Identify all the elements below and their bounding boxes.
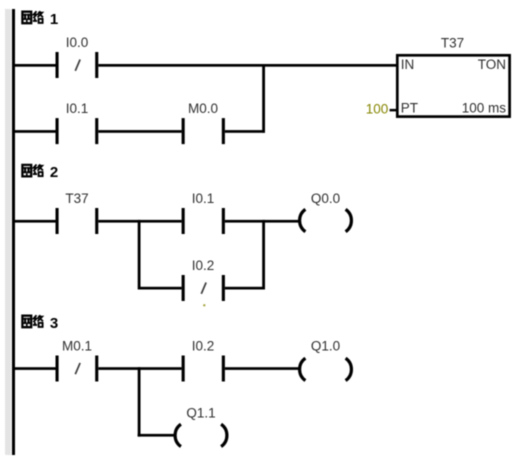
network 3 header 网络 3 <box>22 315 58 332</box>
wire N2 rung1 I0.1 to coil <box>225 220 300 223</box>
contact I0.2 (NO) N3 <box>182 356 225 382</box>
svg-text:I0.2: I0.2 <box>192 339 215 354</box>
coil Q1.1 <box>175 424 227 446</box>
junction vertical N1 <box>262 64 265 133</box>
svg-text:100: 100 <box>366 101 389 116</box>
coil Q0.0 <box>300 209 352 231</box>
svg-text:T37: T37 <box>65 191 88 206</box>
wire N3 rung2 elbow to coil Q1.1 <box>138 434 176 437</box>
wire N1 rung1 I0.0 to timer box <box>98 64 396 67</box>
wire N3 rung1 M0.1 to I0.2 <box>98 367 181 370</box>
svg-text:I0.1: I0.1 <box>192 191 215 206</box>
contact M0.1 (NC) <box>56 356 99 382</box>
svg-text:Q1.1: Q1.1 <box>186 406 215 421</box>
contact M0.0 (NO) <box>182 118 225 144</box>
svg-text:TON: TON <box>478 57 506 72</box>
branch vertical right N2 <box>262 220 265 290</box>
wire N2 rung1 T37 to I0.1 <box>98 220 181 223</box>
artifact dot <box>203 304 205 306</box>
contact I0.0 (NC) <box>56 52 99 78</box>
svg-text:100 ms: 100 ms <box>462 101 507 116</box>
wire N1 rung2 rail to I0.1 <box>14 130 56 133</box>
contact I0.2 (NC) N2 <box>182 275 225 301</box>
timer box T37 TON <box>397 36 509 117</box>
contact I0.1 (NO) N2 <box>182 208 225 234</box>
svg-text:M0.1: M0.1 <box>62 339 92 354</box>
svg-text:1: 1 <box>50 11 58 28</box>
network 2 header 网络 2 <box>22 164 58 181</box>
wire N1 rung2 M0.0 to junction <box>225 130 265 133</box>
coil Q1.0 <box>300 358 352 380</box>
branch vertical left N2 <box>138 220 141 290</box>
svg-text:I0.1: I0.1 <box>66 101 89 116</box>
svg-text:Q0.0: Q0.0 <box>311 191 340 206</box>
wire N3 rung1 rail to M0.1 <box>14 367 56 370</box>
contact I0.1 (NO) <box>56 118 99 144</box>
left power rail <box>12 9 15 455</box>
svg-text:M0.0: M0.0 <box>188 101 218 116</box>
wire N2 parallel rung right <box>225 287 265 290</box>
branch vertical N3 <box>138 367 141 436</box>
wire N2 rung1 rail to T37 contact <box>14 220 56 223</box>
svg-text:2: 2 <box>50 164 58 181</box>
wire N1 rung2 I0.1 to M0.0 <box>98 130 181 133</box>
svg-text:I0.0: I0.0 <box>66 35 89 50</box>
wire N1 rung1 rail to I0.0 <box>14 64 56 67</box>
contact T37 (NO) <box>56 208 99 234</box>
svg-text:PT: PT <box>401 101 418 116</box>
window edge stipple strip <box>5 9 11 455</box>
wire N2 parallel rung left <box>141 287 182 290</box>
svg-text:IN: IN <box>401 57 415 72</box>
network 1 header 网络 1 <box>22 11 58 28</box>
wire N3 rung1 I0.2 to coil <box>225 367 300 370</box>
svg-text:Q1.0: Q1.0 <box>311 339 340 354</box>
svg-text:3: 3 <box>50 315 58 332</box>
svg-text:T37: T37 <box>441 36 464 51</box>
PT dash <box>390 109 397 112</box>
svg-text:I0.2: I0.2 <box>192 258 215 273</box>
